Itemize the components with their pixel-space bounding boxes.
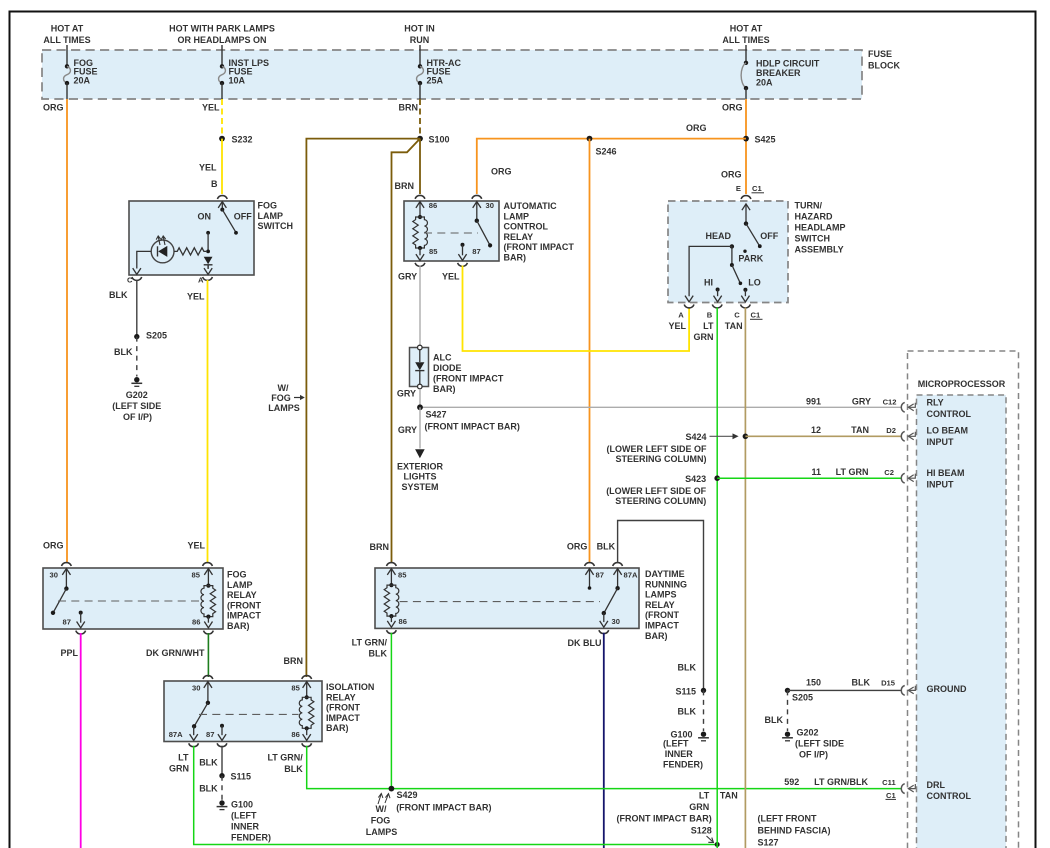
fog relay switch 30-87 [51, 569, 85, 628]
svg-text:HEADLAMP: HEADLAMP [795, 223, 846, 233]
labels ORG BLK above DRL relay [567, 542, 616, 552]
svg-text:SWITCH: SWITCH [258, 221, 294, 231]
svg-text:LAMPS: LAMPS [366, 827, 398, 837]
svg-text:87: 87 [63, 617, 71, 626]
fog relay actuator dashed line [58, 600, 204, 602]
svg-text:ALL TIMES: ALL TIMES [43, 35, 90, 45]
microprocessor outer box [908, 351, 1019, 848]
svg-text:G202: G202 [797, 727, 819, 737]
wire LT GRN/BLK DRL 86 to S429 [390, 633, 392, 789]
wire DK BLU DRL 30 down [603, 633, 605, 848]
dimmer switch arm HI LO [730, 246, 742, 285]
feed label HOT AT ALL TIMES (fog fuse) [43, 24, 90, 46]
splice S128 junction [715, 842, 720, 847]
svg-text:BLOCK: BLOCK [868, 61, 900, 71]
fuse HTR-AC FUSE 25A [417, 45, 462, 99]
ALC relay pin 86 and coil [413, 202, 428, 261]
svg-text:ALL TIMES: ALL TIMES [722, 35, 769, 45]
connector D15 GROUND [806, 678, 967, 696]
svg-text:W/: W/ [376, 804, 387, 814]
svg-text:FOG: FOG [227, 570, 247, 580]
svg-text:(FRONT IMPACT BAR): (FRONT IMPACT BAR) [425, 422, 520, 432]
svg-text:GRY: GRY [398, 272, 417, 282]
svg-text:FOG: FOG [258, 201, 278, 211]
svg-text:GRY: GRY [852, 397, 871, 407]
svg-text:(LEFT: (LEFT [663, 739, 689, 749]
connector C12 RLY CONTROL [806, 397, 972, 419]
svg-text:BLK: BLK [114, 347, 133, 357]
DRL relay switch 87A-30 [600, 569, 622, 628]
DRL relay pin numbers [398, 570, 638, 626]
svg-text:S427: S427 [426, 410, 447, 420]
wire BRN dashed fuse to S100 [419, 99, 421, 139]
splice S429 [389, 786, 395, 792]
svg-text:ORG: ORG [722, 103, 743, 113]
svg-text:EXTERIOR: EXTERIOR [397, 461, 444, 471]
wire LT GRN/BLK isolation 86 to S429 [307, 746, 392, 789]
splice S205 right [785, 688, 790, 693]
wire BLK isolation 87 to S115 left [221, 746, 223, 776]
node HEAD contact and wire to terminal A [685, 244, 734, 302]
wire BRN S100 to daytime running lamps relay 85 [392, 139, 421, 563]
svg-text:30: 30 [192, 684, 200, 693]
svg-text:S115: S115 [231, 772, 252, 782]
svg-text:BLK: BLK [852, 678, 871, 688]
svg-text:BLK: BLK [284, 764, 303, 774]
ground G100 left [217, 800, 228, 809]
label ISOLATION RELAY [326, 682, 374, 733]
svg-text:10A: 10A [229, 75, 246, 85]
svg-text:LT GRN: LT GRN [836, 467, 869, 477]
svg-text:S128: S128 [691, 826, 712, 836]
svg-text:30: 30 [50, 570, 58, 579]
svg-text:87A: 87A [624, 570, 638, 579]
svg-text:(LOWER LEFT SIDE OF: (LOWER LEFT SIDE OF [607, 444, 707, 454]
splice S205 [134, 334, 139, 339]
wire YEL ALC 87 to turn hazard A [463, 266, 690, 352]
ground G100 right [698, 732, 709, 741]
labels BLK YEL below switch [109, 290, 205, 302]
svg-text:ON: ON [198, 212, 212, 222]
wire GRY diode to S427 [419, 389, 421, 408]
wire ORG S246 to DRL relay 87 [589, 139, 591, 563]
svg-text:DK GRN/WHT: DK GRN/WHT [146, 648, 205, 658]
node PARK contact [743, 250, 746, 253]
svg-text:HOT AT: HOT AT [51, 24, 84, 34]
svg-text:BRN: BRN [399, 102, 419, 112]
label S127 [758, 814, 831, 848]
contact LO to terminal C [741, 288, 749, 302]
svg-text:S232: S232 [232, 135, 253, 145]
wire LT GRN/BLK S429 to microprocessor C11 [391, 788, 901, 790]
svg-text:991: 991 [806, 397, 821, 407]
svg-text:LIGHTS: LIGHTS [404, 472, 437, 482]
wire LT GRN isolation 87A to S128 [194, 746, 718, 845]
svg-text:HAZARD: HAZARD [795, 212, 833, 222]
svg-text:AUTOMATIC: AUTOMATIC [504, 201, 558, 211]
svg-text:LO: LO [748, 277, 761, 287]
svg-text:IMPACT: IMPACT [326, 713, 360, 723]
svg-text:OF I/P): OF I/P) [123, 412, 152, 422]
svg-text:YEL: YEL [187, 292, 205, 302]
svg-text:ISOLATION: ISOLATION [326, 682, 374, 692]
label AUTOMATIC LAMP CONTROL RELAY [504, 201, 575, 263]
svg-text:C1: C1 [751, 311, 761, 320]
label DAYTIME RUNNING LAMPS RELAY [645, 569, 687, 641]
ALC relay switch 30-87 [458, 202, 492, 261]
wire LT GRN turn hazard B down [716, 308, 718, 848]
wire YEL dashed fuse to S232 [221, 99, 223, 139]
svg-text:(FRONT: (FRONT [645, 610, 679, 620]
svg-text:GRY: GRY [398, 425, 417, 435]
svg-text:TURN/: TURN/ [795, 201, 823, 211]
isolation relay actuator dashed line [199, 713, 299, 715]
svg-text:ORG: ORG [43, 541, 64, 551]
svg-text:HEAD: HEAD [706, 231, 732, 241]
svg-text:BLK: BLK [369, 649, 388, 659]
svg-text:(FRONT: (FRONT [227, 600, 261, 610]
svg-text:30: 30 [612, 617, 620, 626]
svg-text:(FRONT IMPACT BAR): (FRONT IMPACT BAR) [616, 814, 711, 824]
wire TAN S424 to microprocessor D2 [745, 435, 901, 437]
svg-text:INNER: INNER [231, 822, 260, 832]
DRL relay pin 87 stub [585, 569, 593, 590]
microprocessor inner box [917, 395, 1007, 848]
labels GRY YEL below ALC relay [398, 272, 460, 282]
svg-text:C1: C1 [752, 184, 762, 193]
svg-text:GRN: GRN [689, 802, 709, 812]
svg-text:SWITCH: SWITCH [795, 234, 831, 244]
svg-text:(FRONT IMPACT: (FRONT IMPACT [433, 374, 504, 384]
svg-text:12: 12 [811, 425, 821, 435]
svg-text:S205: S205 [792, 693, 813, 703]
feed label HOT IN RUN [404, 24, 435, 46]
svg-text:CONTROL: CONTROL [927, 791, 972, 801]
svg-text:TAN: TAN [851, 425, 869, 435]
svg-text:S429: S429 [397, 790, 418, 800]
svg-text:RUNNING: RUNNING [645, 579, 687, 589]
svg-text:GROUND: GROUND [927, 684, 967, 694]
isolation relay coil 85-86 [299, 682, 314, 741]
svg-text:BLK: BLK [199, 784, 218, 794]
svg-text:INPUT: INPUT [927, 437, 955, 447]
svg-text:BRN: BRN [284, 656, 304, 666]
svg-text:MICROPROCESSOR: MICROPROCESSOR [918, 379, 1006, 389]
svg-text:BAR): BAR) [326, 723, 349, 733]
svg-text:C12: C12 [883, 398, 897, 407]
labels A B C C1 [678, 311, 762, 320]
wire BRN S100 to automatic lamp control relay 86 [419, 139, 421, 194]
splice S427 [417, 404, 423, 410]
wire BLK dashed to G100 right [703, 690, 705, 731]
headlamp switch E arm [742, 204, 762, 248]
turn hazard headlamp switch assembly box [668, 201, 788, 303]
svg-text:FOG: FOG [271, 393, 291, 403]
fog switch ON pole [206, 231, 210, 251]
svg-text:86: 86 [192, 617, 200, 626]
svg-text:(LEFT SIDE: (LEFT SIDE [112, 401, 161, 411]
DRL relay coil 85-86 [384, 569, 399, 628]
svg-text:STEERING COLUMN): STEERING COLUMN) [615, 496, 706, 506]
svg-text:592: 592 [784, 777, 799, 787]
svg-text:LT: LT [699, 791, 710, 801]
ALC relay pin numbers [429, 201, 494, 256]
labels HEAD OFF PARK [706, 231, 779, 263]
svg-text:HOT IN: HOT IN [404, 24, 435, 34]
svg-text:BAR): BAR) [227, 621, 250, 631]
svg-text:INPUT: INPUT [927, 479, 955, 489]
svg-text:LT: LT [703, 321, 714, 331]
DRL relay terminal arcs [387, 563, 397, 566]
fuse FOG FUSE 20A [64, 45, 98, 99]
svg-text:YEL: YEL [202, 103, 220, 113]
svg-text:85: 85 [291, 684, 300, 693]
svg-text:ORG: ORG [491, 166, 512, 176]
splice S425 [743, 136, 749, 142]
svg-text:D2: D2 [886, 426, 896, 435]
svg-text:CONTROL: CONTROL [504, 222, 549, 232]
wire ORG S425 to S246 to ALC relay 30 [477, 139, 746, 194]
wire BLK dashed S205 to G202 [136, 337, 138, 377]
fog lamp switch box [129, 201, 254, 275]
svg-text:BLK: BLK [678, 663, 697, 673]
svg-text:ALC: ALC [433, 353, 452, 363]
svg-text:30: 30 [486, 201, 494, 210]
svg-text:SYSTEM: SYSTEM [401, 482, 438, 492]
svg-text:S423: S423 [685, 474, 706, 484]
svg-text:B: B [707, 311, 713, 320]
wire BLK dashed S205 to G202 right [787, 690, 789, 731]
wire LT GRN S423 to microprocessor C2 [717, 477, 901, 479]
svg-text:G100: G100 [231, 800, 253, 810]
svg-text:GRY: GRY [397, 389, 416, 399]
wire TAN turn hazard C down [744, 308, 746, 848]
svg-text:G202: G202 [126, 390, 148, 400]
terminal arcs A and C [203, 277, 213, 280]
svg-text:INNER: INNER [665, 749, 694, 759]
svg-text:C1: C1 [886, 791, 896, 800]
svg-text:IMPACT: IMPACT [645, 621, 679, 631]
feed label HOT AT ALL TIMES (circuit breaker) [722, 24, 769, 46]
isolation relay box [164, 681, 322, 742]
svg-text:FENDER): FENDER) [663, 760, 703, 770]
svg-text:ORG: ORG [686, 123, 707, 133]
labels LT GRN/ BLK below DRL 86 [352, 638, 388, 659]
svg-text:HOT AT: HOT AT [730, 24, 763, 34]
fuse INST LPS FUSE 10A [219, 45, 269, 99]
ALC diode box [410, 348, 429, 387]
svg-text:20A: 20A [74, 75, 91, 85]
svg-text:S127: S127 [758, 838, 779, 848]
svg-text:BLK: BLK [109, 290, 128, 300]
label YEL B [199, 163, 218, 189]
wire ORG S425 vertical from breaker [745, 99, 747, 194]
wire YEL S232 to fog lamp switch B [221, 139, 223, 194]
labels LT GRN TAN at bottom [689, 791, 738, 812]
wire BLK S205 to microprocessor D15 [788, 689, 902, 691]
svg-text:TAN: TAN [725, 321, 743, 331]
svg-text:S115: S115 [675, 686, 696, 696]
svg-text:OFF: OFF [234, 212, 252, 222]
svg-text:E: E [736, 184, 741, 193]
svg-text:LAMPS: LAMPS [268, 403, 300, 413]
ground G202 left [131, 377, 142, 386]
contact HI to terminal B [714, 288, 722, 302]
svg-text:RELAY: RELAY [326, 692, 356, 702]
svg-text:BAR): BAR) [504, 253, 527, 263]
svg-text:OF I/P): OF I/P) [799, 750, 828, 760]
svg-text:S425: S425 [755, 135, 776, 145]
svg-text:FOG: FOG [371, 816, 391, 826]
svg-text:RLY: RLY [927, 398, 944, 408]
isolation relay pin numbers [169, 684, 301, 740]
terminal arcs A B C [684, 305, 694, 308]
labels LT GRN below 87A [169, 753, 189, 774]
svg-text:(LEFT: (LEFT [231, 811, 257, 821]
connector C11 DRL CONTROL [784, 777, 971, 801]
labels LT GRN/ BLK below isolation 86 [267, 753, 303, 775]
splice S232 [219, 136, 225, 142]
svg-text:BAR): BAR) [645, 631, 668, 641]
svg-text:86: 86 [399, 617, 407, 626]
svg-text:RELAY: RELAY [504, 232, 534, 242]
svg-text:150: 150 [806, 678, 821, 688]
fuse block [42, 50, 862, 99]
isolation relay pin 87 stub [218, 724, 226, 741]
wire PPL fog relay 87 down [80, 633, 82, 848]
DRL relay actuator dashed line [400, 601, 600, 603]
wire BLK C to S205 [136, 280, 138, 337]
svg-text:PPL: PPL [61, 648, 79, 658]
wire GRY ALC 85 to diode [419, 266, 421, 346]
svg-text:TAN: TAN [720, 791, 738, 801]
svg-text:(FRONT IMPACT BAR): (FRONT IMPACT BAR) [396, 803, 491, 813]
svg-text:85: 85 [398, 570, 407, 579]
terminal B arc [217, 196, 227, 199]
svg-text:HOT WITH PARK LAMPS: HOT WITH PARK LAMPS [169, 24, 275, 34]
svg-text:YEL: YEL [442, 272, 460, 282]
svg-text:LO BEAM: LO BEAM [927, 426, 969, 436]
resistor in fog switch [174, 248, 206, 255]
svg-text:LT GRN/: LT GRN/ [267, 753, 303, 763]
svg-text:DK BLU: DK BLU [568, 638, 602, 648]
svg-text:85: 85 [192, 570, 201, 579]
svg-text:BLK: BLK [678, 707, 697, 717]
svg-text:S424: S424 [685, 432, 706, 442]
svg-text:S246: S246 [596, 147, 617, 157]
fog relay coil 85-86 [201, 569, 216, 628]
svg-text:LAMP: LAMP [227, 580, 253, 590]
svg-text:C: C [127, 276, 133, 285]
svg-text:OFF: OFF [760, 231, 778, 241]
svg-text:D15: D15 [881, 679, 896, 688]
label TURN/HAZARD HEADLAMP SWITCH ASSEMBLY [795, 201, 846, 255]
svg-text:IMPACT: IMPACT [227, 611, 261, 621]
splice S100 [417, 136, 423, 142]
svg-text:25A: 25A [427, 75, 444, 85]
ALC relay actuator dashed line [424, 232, 478, 234]
svg-text:87: 87 [472, 247, 480, 256]
svg-text:(FRONT IMPACT: (FRONT IMPACT [504, 242, 575, 252]
ALC relay terminal arcs [415, 195, 425, 198]
svg-text:GRN: GRN [694, 332, 714, 342]
svg-text:YEL: YEL [669, 321, 687, 331]
label ON OFF [198, 212, 253, 222]
diode in fog switch [204, 257, 213, 275]
splice S246 [587, 136, 593, 142]
svg-text:RELAY: RELAY [227, 590, 257, 600]
automatic lamp control relay box [404, 201, 499, 261]
svg-text:LAMP: LAMP [258, 211, 284, 221]
svg-text:(LEFT SIDE: (LEFT SIDE [795, 738, 844, 748]
svg-text:C: C [734, 311, 740, 320]
labels E C1 [736, 184, 764, 193]
splice S115 right [701, 688, 706, 693]
svg-text:RELAY: RELAY [645, 600, 675, 610]
svg-text:FUSE: FUSE [868, 49, 892, 59]
labels YEL LT GRN TAN [669, 321, 743, 342]
svg-text:S100: S100 [429, 135, 450, 145]
labels HI LO [704, 277, 761, 287]
svg-text:FENDER): FENDER) [231, 833, 271, 843]
svg-text:LT GRN/BLK: LT GRN/BLK [814, 777, 868, 787]
svg-text:B: B [211, 179, 218, 189]
svg-text:BEHIND FASCIA): BEHIND FASCIA) [758, 826, 831, 836]
svg-text:DRL: DRL [927, 780, 946, 790]
daytime running lamps relay box [375, 568, 639, 628]
svg-text:85: 85 [429, 247, 438, 256]
svg-text:BLK: BLK [199, 758, 218, 768]
svg-text:A: A [198, 276, 204, 285]
svg-text:DIODE: DIODE [433, 363, 462, 373]
svg-text:RUN: RUN [410, 35, 430, 45]
svg-text:BRN: BRN [370, 542, 390, 552]
label FOG LAMP RELAY [227, 570, 261, 632]
arrow to exterior lights system [415, 449, 425, 458]
svg-text:LT: LT [178, 753, 189, 763]
node resistor-diode junction [206, 250, 210, 254]
svg-text:HI: HI [704, 277, 713, 287]
svg-text:ORG: ORG [567, 542, 588, 552]
svg-text:BREAKER: BREAKER [756, 68, 801, 78]
ground G202 right [782, 732, 793, 741]
svg-text:86: 86 [429, 201, 437, 210]
fog relay pin numbers [50, 570, 201, 626]
labels PPL DK GRN/WHT [61, 648, 205, 658]
W/ FOG LAMPS arrows at S429 [366, 793, 398, 837]
svg-text:A: A [678, 311, 684, 320]
label FOG LAMP SWITCH [258, 201, 294, 232]
fog switch contact B arrow and blade [218, 202, 238, 235]
wire YEL fog switch A to fog lamp relay 85 [207, 280, 209, 563]
svg-text:(LEFT FRONT: (LEFT FRONT [758, 814, 817, 824]
svg-text:LAMP: LAMP [504, 211, 530, 221]
ALC diode symbol [415, 345, 424, 389]
svg-text:LT GRN/: LT GRN/ [352, 638, 388, 648]
svg-text:ORG: ORG [721, 170, 742, 180]
fog relay terminal arcs [62, 563, 72, 566]
svg-text:YEL: YEL [188, 541, 206, 551]
svg-text:(FRONT: (FRONT [326, 703, 360, 713]
svg-text:(LOWER LEFT SIDE OF: (LOWER LEFT SIDE OF [606, 486, 706, 496]
feed label HOT WITH PARK LAMPS OR HEADLAMPS ON [169, 24, 275, 46]
svg-text:LAMPS: LAMPS [645, 590, 677, 600]
indicator LED [151, 236, 174, 263]
splice S424 with arrow label [607, 432, 749, 464]
svg-text:20A: 20A [756, 78, 773, 88]
svg-text:11: 11 [811, 467, 821, 477]
svg-text:BAR): BAR) [433, 384, 456, 394]
